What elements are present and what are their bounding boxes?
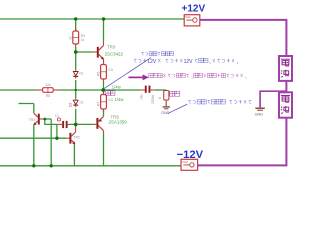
wire bias column upper (rail to R1) (75, 19, 77, 31)
wire TR1 base net (43, 118, 51, 120)
svg-text:1/4w: 1/4w (112, 85, 122, 90)
wire battery negative (battery 2 to -12V) (198, 118, 287, 166)
battery BT1 (電池) (279, 56, 292, 81)
svg-text:GND: GND (255, 112, 264, 116)
svg-text:2SA1359: 2SA1359 (109, 120, 128, 125)
wire y=138 net to TR2 base (0, 137, 66, 139)
resistor RL load (vertical) (164, 90, 169, 104)
wire TR2 emitter to bottom rail (73, 145, 75, 166)
label 出力 (output) (106, 91, 115, 96)
resistor R2 emitter TR0 (vertical) (101, 62, 107, 83)
junction bottom rail A (32, 164, 35, 167)
junction rail/TR0 collector (102, 17, 105, 20)
connector +12V terminal (184, 15, 200, 26)
wire junction x=56.9 down to y=138 net (56, 124, 58, 138)
capacitor C1 coupling at TR2 (57, 121, 70, 128)
ground battery GND (255, 108, 265, 116)
resistor R8 feedback (horizontal) (37, 88, 60, 93)
wire D1 to D2 (75, 80, 77, 98)
wire D2 to lower base node (75, 109, 77, 125)
svg-text:TR2: TR2 (74, 136, 81, 140)
svg-text:12k: 12k (45, 83, 51, 87)
wire base tee down to coupling cap net (45, 119, 57, 124)
wire +12V top rail (0, 18, 184, 20)
capacitor C1 polarity circle (57, 118, 60, 121)
svg-text:R6: R6 (96, 72, 100, 76)
svg-text:1k: 1k (81, 38, 85, 42)
annotation text この電位は理論上 (141, 52, 173, 56)
svg-text:0.5: 0.5 (109, 68, 114, 72)
junction rail/bias (74, 17, 77, 20)
svg-text:TR1: TR1 (29, 118, 36, 122)
svg-text:12V: 12V (184, 59, 194, 65)
diode D2 bias (73, 98, 78, 107)
wire cap C1 to lower base node / TR9 base (70, 123, 94, 125)
wire battery positive (+12V to battery 1) (200, 20, 287, 56)
wire R1 to base node (75, 47, 77, 52)
junction TR0 base node (74, 50, 78, 54)
transistor TR0 2SC3422 NPN (93, 42, 104, 65)
wire base node down to diode D1 (75, 52, 77, 70)
wire TR2 collector up to lower base node (75, 124, 77, 127)
svg-text:1k: 1k (69, 36, 73, 40)
transistor TR1 driver (mirrored NPN) (33, 113, 43, 125)
wire -12V bottom rail (0, 165, 181, 167)
junction y138 net (55, 137, 58, 140)
svg-text:0.5: 0.5 (109, 98, 114, 102)
transistor TR9 2SA1359 PNP (93, 116, 103, 133)
capacitor C2 output coupling (140, 86, 155, 93)
svg-text:8: 8 (158, 97, 162, 99)
annotation text 電位差なしの状態で、負荷に電流は流れますか？ (149, 73, 246, 78)
svg-text:1/4w: 1/4w (115, 97, 125, 102)
diode D1 bias (73, 70, 78, 79)
wire battery midpoint tap to ground (260, 91, 286, 107)
svg-text:C1: C1 (55, 114, 59, 118)
annotation pointer line to output node (105, 58, 151, 89)
label 負荷 (load) (170, 91, 180, 96)
svg-text:2SC3422: 2SC3422 (105, 52, 124, 57)
wire output node horizontal net y=90 (0, 89, 140, 91)
wire vertical x=51 to bottom rail (50, 119, 52, 166)
junction bias column at output net crossing (75, 89, 77, 91)
annotation arrow (magenta) (129, 74, 149, 80)
wire TR1 collector stub (19, 104, 34, 114)
svg-text:D1: D1 (80, 72, 84, 76)
wire between batteries (285, 81, 287, 93)
svg-text:D2: D2 (80, 100, 84, 104)
wire from output cap to load (155, 89, 166, 91)
wire load resistor to ground (165, 103, 167, 106)
junction lower base node (74, 123, 78, 127)
resistor R1 bias upper (vertical) (73, 28, 79, 47)
junction bottom rail B (50, 164, 53, 167)
wire output node to R4 (103, 90, 105, 93)
svg-text:FG1: FG1 (185, 15, 191, 19)
annotation pointer line to load ground node (168, 104, 187, 113)
svg-text:12V: 12V (147, 59, 157, 65)
junction output node (101, 88, 105, 92)
svg-text:2200u: 2200u (151, 95, 155, 104)
connector -12V terminal (181, 159, 198, 170)
wire TR1 emitter to bottom rail (33, 125, 35, 166)
wire TR0 emitter to R2 / R2 to output node (103, 82, 105, 90)
junction TR1 base tee (43, 118, 46, 121)
resistor R4 emitter TR9 (vertical) (101, 92, 107, 113)
svg-text:TR0: TR0 (107, 44, 116, 49)
svg-text:D2: D2 (69, 103, 73, 107)
battery BT2 (電池) (279, 92, 292, 117)
svg-text:R7: R7 (96, 102, 100, 106)
ground load GND (161, 107, 170, 115)
svg-text:−12V: −12V (177, 149, 204, 161)
wire TR0 collector to rail (103, 19, 105, 42)
wire TR9 collector down to bottom rail (103, 133, 105, 166)
annotation text プラス12Vと マイナス12Vの中位（ゼロボルト） (134, 58, 238, 65)
svg-text:+12V: +12V (182, 4, 206, 15)
wire base node to TR0 base (76, 51, 94, 53)
transistor TR2 VAS NPN (66, 128, 75, 146)
svg-text:10u: 10u (140, 94, 144, 100)
wire R4 to TR9 (103, 111, 105, 117)
annotation text この電位も理論上 ゼロボルト (188, 99, 251, 104)
svg-text:R8: R8 (46, 94, 50, 98)
